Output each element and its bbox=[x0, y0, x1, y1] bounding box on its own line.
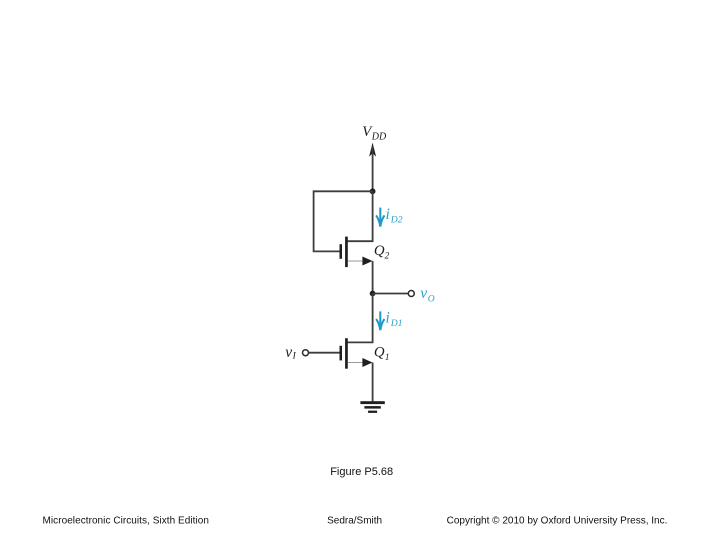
transistor Q2 (diode-connected NMOS load) bbox=[340, 237, 373, 268]
current arrow iD2 (cyan) bbox=[376, 208, 384, 227]
label vO (cyan) bbox=[420, 285, 435, 305]
wire feedback loop from node A to gate of Q2 bbox=[314, 191, 373, 251]
input terminal circle bbox=[303, 350, 309, 356]
wire VDD to node A bbox=[372, 146, 374, 191]
label iD2 bbox=[386, 206, 403, 226]
current arrow iD1 (cyan) bbox=[376, 311, 384, 330]
output terminal circle bbox=[408, 291, 414, 297]
wire node vO down to drain of Q1 bbox=[348, 294, 373, 343]
VDD arrow (supply, pointing up) bbox=[369, 143, 376, 157]
svg-text:I: I bbox=[292, 350, 297, 361]
svg-text:D2: D2 bbox=[390, 215, 403, 226]
svg-text:v: v bbox=[420, 285, 427, 302]
label iD1 bbox=[386, 310, 403, 330]
svg-text:Microelectronic Circuits, Sixt: Microelectronic Circuits, Sixth Edition bbox=[43, 515, 209, 526]
node VDD label bbox=[362, 124, 387, 143]
label vI bbox=[285, 344, 296, 361]
svg-text:DD: DD bbox=[371, 131, 387, 142]
svg-text:1: 1 bbox=[385, 352, 390, 362]
svg-text:Q: Q bbox=[374, 243, 385, 259]
ground bbox=[360, 401, 384, 413]
node A junction dot (drain of Q2 / gate feedback) bbox=[370, 188, 376, 194]
node vO junction dot bbox=[370, 291, 376, 297]
svg-text:i: i bbox=[386, 206, 390, 223]
wire source of Q1 down to ground bbox=[372, 363, 374, 402]
wire node A down to drain of Q2 bbox=[348, 191, 373, 241]
wire node vO to output terminal bbox=[373, 293, 408, 295]
svg-text:Figure P5.68: Figure P5.68 bbox=[330, 466, 393, 478]
wire source of Q2 down to node vO bbox=[372, 261, 374, 294]
svg-text:O: O bbox=[428, 294, 435, 305]
svg-text:Sedra/Smith: Sedra/Smith bbox=[327, 515, 382, 526]
transistor Q1 (NMOS driver) bbox=[340, 338, 373, 369]
svg-text:2: 2 bbox=[385, 251, 390, 261]
svg-text:Copyright © 2010 by Oxford Uni: Copyright © 2010 by Oxford University Pr… bbox=[447, 515, 668, 526]
svg-text:v: v bbox=[285, 344, 292, 361]
label Q2 bbox=[374, 243, 390, 260]
svg-text:D1: D1 bbox=[390, 318, 403, 329]
svg-text:Q: Q bbox=[374, 345, 385, 361]
svg-text:i: i bbox=[386, 310, 390, 327]
wire input terminal to gate of Q1 bbox=[309, 352, 340, 354]
label Q1 bbox=[374, 345, 390, 362]
